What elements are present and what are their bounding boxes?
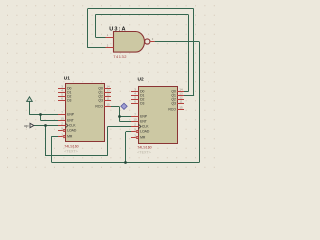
svg-text:11: 11: [106, 97, 109, 101]
svg-text:<TEXT>: <TEXT>: [137, 151, 150, 155]
svg-text:Q3: Q3: [98, 99, 103, 103]
svg-text:MR: MR: [140, 136, 146, 140]
svg-text:11: 11: [179, 100, 182, 104]
svg-text:LOAD: LOAD: [140, 130, 150, 134]
svg-text:Q3: Q3: [171, 102, 176, 106]
svg-text:D3: D3: [140, 102, 144, 106]
svg-text:<TEXT>: <TEXT>: [64, 150, 77, 154]
svg-text:CLK: CLK: [142, 125, 149, 129]
svg-text:15: 15: [179, 106, 183, 110]
svg-text:LOAD: LOAD: [67, 129, 77, 133]
svg-text:74LS160: 74LS160: [137, 146, 151, 150]
svg-text:ENP: ENP: [140, 115, 148, 119]
svg-text:D3: D3: [67, 99, 71, 103]
svg-text:U3:A: U3:A: [109, 26, 126, 32]
svg-text:15: 15: [106, 103, 110, 107]
svg-text:74132: 74132: [113, 54, 127, 59]
svg-text:U2: U2: [138, 76, 144, 82]
svg-text:RCO: RCO: [168, 108, 176, 112]
svg-text:ENT: ENT: [140, 120, 147, 124]
svg-text:U1: U1: [64, 76, 70, 82]
svg-text:ENP: ENP: [67, 113, 75, 117]
svg-text:10: 10: [133, 118, 137, 122]
svg-text:ENT: ENT: [67, 119, 74, 123]
svg-text:74LS160: 74LS160: [64, 144, 78, 148]
svg-text:RCO: RCO: [95, 105, 103, 109]
svg-text:10: 10: [60, 117, 64, 121]
svg-text:CLK: CLK: [69, 124, 76, 128]
svg-text:MR: MR: [67, 135, 73, 139]
